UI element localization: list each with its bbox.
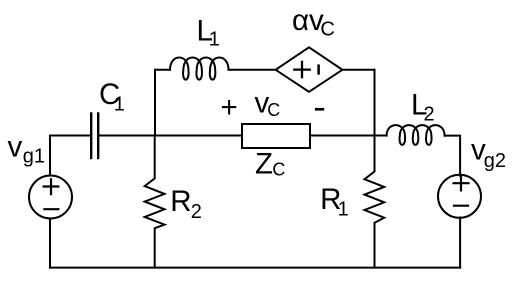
wire stub before L1 [155,69,170,71]
wire bottom rail [50,267,460,269]
dependent source alpha-vC (diamond) [276,47,343,92]
wire from L1 to dependent source [229,69,276,71]
wire left branch top vertical [49,136,51,176]
svg-text:+: + [221,91,238,124]
label minus of vC [315,108,324,111]
svg-text:g1: g1 [23,145,45,167]
svg-text:Z: Z [255,148,273,181]
svg-text:1: 1 [209,29,220,51]
svg-text:v: v [8,130,23,163]
impedance ZC box [242,124,310,148]
svg-text:g2: g2 [484,150,506,172]
resistor R2 [145,136,165,268]
voltage source vg2 [438,175,481,218]
svg-text:C: C [267,100,280,120]
wire top horizontal left of C1 [50,135,90,137]
inductor L2 [387,125,445,145]
svg-text:2: 2 [424,104,435,126]
capacitor C1 [91,114,98,159]
svg-text:αv: αv [292,4,324,37]
inductor L1 [170,58,229,80]
resistor R1 [365,136,385,268]
svg-text:1: 1 [338,199,349,221]
svg-text:C: C [272,160,285,180]
wire below vg2 [459,218,461,268]
wire from ZC box to node B [310,135,387,137]
wire from dependent source to right drop [342,69,374,71]
wire node A up to L1 level [154,70,156,136]
wire left branch bottom vertical [49,219,51,268]
wire from C1 to node A and to ZC box [99,135,242,137]
svg-text:C: C [320,19,334,41]
svg-text:2: 2 [191,201,202,223]
wire right drop down to node B [374,70,376,136]
svg-text:R: R [170,185,191,218]
svg-text:1: 1 [114,94,125,116]
wire from L2 to right branch corner [445,136,461,176]
voltage source vg1 [29,176,72,219]
